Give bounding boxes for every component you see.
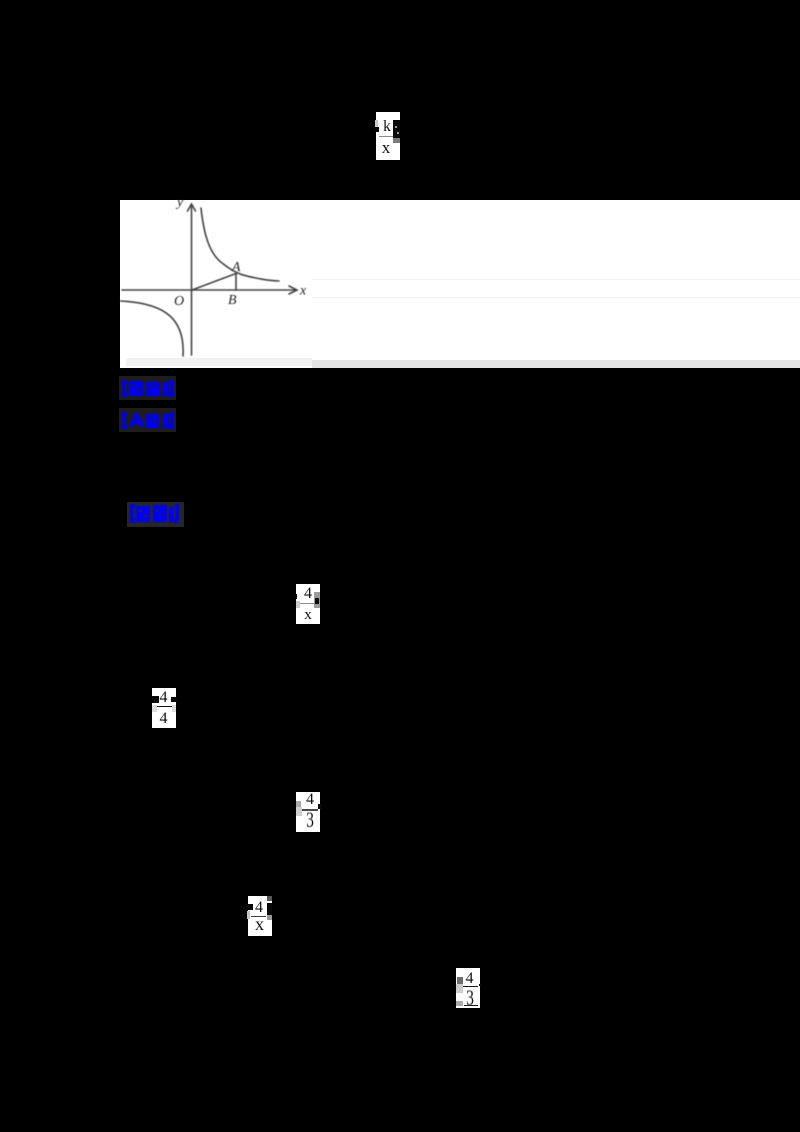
svg-text:O: O [174,294,184,309]
svg-text:y: y [175,196,184,210]
svg-text:A: A [231,260,241,275]
svg-text:x: x [299,284,307,299]
svg-text:B: B [228,293,237,308]
